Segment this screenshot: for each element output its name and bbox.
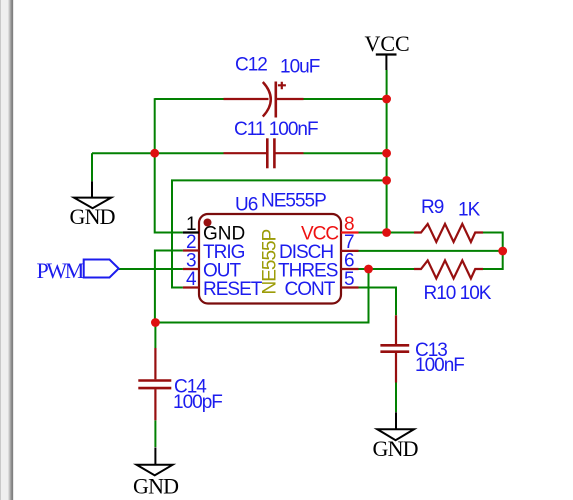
ground C13 [373,412,418,461]
left window edge strip [0,0,14,500]
pin 4 RESET [183,269,263,300]
junction node THRES/R10 [364,265,373,274]
wire VCC rail vertical [386,70,388,233]
wire C14 bottom [154,420,156,447]
resistor R9 [414,197,483,242]
ground C14 [133,447,178,498]
wire C14 top [154,323,156,349]
junction node VCC/pin8 [382,228,391,237]
wire pin1 GND [155,152,183,232]
junction node GND/C11 [150,149,159,158]
svg-text:GND: GND [373,436,418,461]
wire pin7 DISCH [359,250,503,252]
svg-text:5: 5 [344,269,354,290]
wire PWM to pin3 [119,268,183,270]
IC U6 NE555P body [199,191,341,304]
junction node VCC/C12 [382,95,391,104]
ground left [70,181,115,229]
wire pin2 TRIG down [155,251,183,323]
net label PWM [37,258,119,283]
pin 5 CONT [285,269,359,300]
svg-text:4: 4 [186,269,197,290]
junction node VCC/C11 [382,149,391,158]
resistor R10 [414,260,492,304]
wire GND left drop [91,153,93,181]
wire TRIG-THRES bottom run [155,269,368,323]
svg-text:1K: 1K [458,200,481,221]
wire C11 row to GND [92,152,387,154]
svg-text:NE555P: NE555P [261,191,326,212]
svg-text:R10 10K: R10 10K [424,283,492,304]
svg-text:PWM: PWM [37,258,84,283]
svg-text:GND: GND [70,204,115,229]
capacitor C12 [224,55,320,118]
wire RESET to VCC [172,180,387,287]
svg-text:VCC: VCC [365,31,410,56]
capacitor C14 [138,348,222,420]
junction node VCC/RESET [382,176,391,185]
junction node C14/TRIG [151,318,160,327]
svg-text:100pF: 100pF [173,392,222,413]
pin 2 TRIG [183,232,245,263]
pin 1 GND [183,214,245,245]
wire C12 row [155,98,387,100]
svg-text:R9: R9 [421,197,444,218]
svg-text:C12: C12 [235,55,267,76]
power flag VCC [365,31,410,70]
svg-text:CONT: CONT [285,279,336,300]
pin 3 OUT [183,251,242,282]
svg-text:10uF: 10uF [280,57,320,78]
wire pin5 CONT to C13 [359,288,397,316]
capacitor C11 [224,119,318,168]
wire pin8 to R9 [359,232,415,234]
junction node DISCH/R9R10 [498,247,507,256]
wire C12 left drop [154,98,156,153]
svg-text:100nF: 100nF [415,355,464,376]
capacitor C13 [380,315,464,382]
wire R9 right down to R10 [483,233,503,270]
pin 7 DISCH [279,232,359,263]
svg-text:U6: U6 [235,195,258,216]
svg-text:GND: GND [133,474,178,499]
pin 8 VCC [301,214,359,245]
wire C13 bottom [395,383,397,413]
wire pin6 to R10 [359,268,415,270]
svg-text:C11 100nF: C11 100nF [234,119,318,140]
pin 6 THRES [278,251,359,282]
svg-text:RESET: RESET [203,279,263,300]
